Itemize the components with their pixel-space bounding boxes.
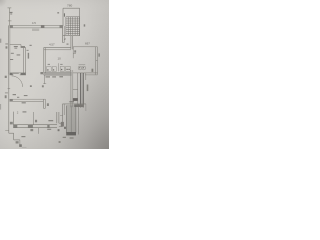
dimension tick top-left [8, 7, 12, 9]
room A top wall [10, 44, 21, 46]
lower stair top wall [63, 103, 86, 105]
kitchen bottom wall (double) [44, 73, 72, 75]
dim text right of hall wall [98, 53, 100, 56]
shaft dark block left [73, 98, 78, 101]
sill stub below window [38, 128, 40, 134]
left wall ticks and dim texts [5, 44, 29, 59]
window sill below top wall [32, 29, 39, 31]
lower-left vertical wall stub [13, 112, 15, 125]
lower stair right wall (fading) [85, 104, 87, 111]
wall stub below kitchen [44, 75, 46, 84]
lower stair dim label [69, 101, 74, 102]
kitchen top wall (double) [44, 47, 71, 49]
fixture dark dots [47, 69, 69, 71]
stair treads grid [66, 17, 80, 35]
wall above bottom wall [33, 112, 35, 125]
corridor wall start dark fill [10, 99, 13, 102]
door tick [8, 88, 11, 90]
shaft left tick [73, 88, 78, 90]
svg-text:4.57: 4.57 [49, 43, 55, 47]
wall foot mark [19, 144, 22, 147]
svg-text:10: 10 [58, 56, 62, 60]
shaft dark double wall [80, 73, 82, 107]
room A top-right jog [21, 45, 25, 48]
shaft left wall (double) [70, 70, 72, 107]
door arc room A [12, 76, 23, 87]
hall top wall [73, 46, 98, 48]
dim texts under kitchen wall [46, 76, 63, 77]
paper edge marks left [0, 39, 1, 43]
bottom-left step jog [9, 132, 14, 134]
shaft right stub [85, 73, 87, 80]
lower stair bottom dark block [66, 132, 76, 135]
labels around bottom wall [30, 120, 53, 131]
lower stair left tick [60, 115, 63, 117]
shaft bottom band [74, 104, 84, 107]
paper background [0, 0, 109, 149]
fixture divider line [58, 63, 60, 71]
bottom-right shadow [0, 0, 109, 149]
stair bottom wall [63, 35, 80, 37]
svg-text:697: 697 [85, 42, 90, 46]
svg-text:4.5: 4.5 [32, 21, 36, 25]
left exterior wall lower part [8, 75, 10, 134]
stair enclosure right wall [79, 8, 81, 36]
room A inner dim texts [10, 46, 20, 60]
vertical dim text right of shaft [87, 85, 89, 92]
exterior top wall double line [10, 24, 63, 26]
kitchen counter fixtures [46, 67, 70, 72]
labels bottom-left [16, 136, 26, 144]
kitchen left wall (double) [43, 48, 45, 75]
small mark left of stair foot [58, 129, 60, 131]
bottom wall (double) [13, 124, 57, 126]
stair enclosure top wall [63, 7, 80, 9]
corridor wall horizontal (double) [10, 98, 46, 100]
lower stair left dark block [61, 122, 64, 127]
room A right wall (double) [23, 47, 25, 73]
connecting wall pieces [59, 122, 63, 124]
shaft middle line [77, 73, 79, 107]
vertical vignette [0, 0, 109, 149]
corridor dim texts [5, 93, 49, 107]
room A bottom wall end blocks [10, 73, 26, 75]
dim mark above kitchen wall right [67, 44, 69, 45]
top-left corner shade [0, 0, 40, 40]
hall right wall (double) [95, 47, 97, 75]
labels near door [5, 73, 19, 79]
stair enclosure left wall [62, 8, 64, 26]
top wall fill blocks [10, 25, 63, 28]
lower stair rails [66, 106, 76, 133]
right wall divider tick [96, 60, 98, 62]
marks below lower stairs [59, 137, 74, 143]
wall left of lower stairs (double vertical) [56, 112, 58, 123]
right wall small label [92, 69, 94, 72]
small labels above fixtures [48, 63, 63, 66]
tick bottom-left [5, 130, 9, 132]
interior wall stub right of stairs [72, 47, 74, 58]
dim mark right of room A top [30, 45, 32, 46]
wall stub above kitchen (double vertical) [70, 36, 72, 49]
tick on left wall [8, 20, 12, 22]
svg-text:780: 780 [67, 3, 72, 7]
interior wall below stairs (double) [62, 26, 64, 43]
dimension line left vertical [8, 8, 10, 26]
door jamb block [10, 122, 13, 125]
stair flight small labels [57, 12, 65, 16]
lower stair treads [66, 105, 76, 107]
left exterior wall (double) [8, 25, 10, 74]
lower stair right guide line [78, 104, 80, 135]
bottom wall darker segments [13, 125, 49, 128]
small label right of top stairs [84, 24, 86, 26]
room A bottom wall (double, door gap) [10, 72, 26, 74]
wc fixture circles [78, 66, 82, 70]
room A corner cap [21, 46, 25, 48]
dim text blob left [10, 12, 13, 15]
hall bottom wall [73, 72, 98, 74]
corridor corner wall (double vertical) [42, 99, 44, 108]
lower stair left wall (double) [62, 104, 64, 125]
